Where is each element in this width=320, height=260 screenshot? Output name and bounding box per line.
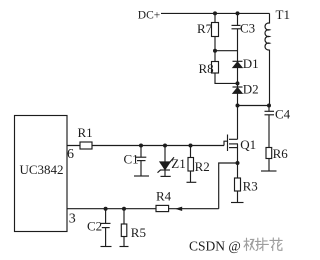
wire R8 bottom L <box>215 73 238 83</box>
wire R7-R8 node horizontal <box>215 50 238 52</box>
resistor R6 <box>266 148 272 159</box>
svg-text:D2: D2 <box>243 81 259 96</box>
node R7-R8 <box>213 49 217 53</box>
wire R7 top lead <box>214 13 216 22</box>
node D2-clamp <box>236 104 240 108</box>
terminal bar Z1 <box>161 175 171 177</box>
watermark glyph ka <box>258 238 269 251</box>
node R5 <box>122 207 126 211</box>
terminal bar R5 <box>120 246 129 248</box>
node C1 <box>139 144 143 148</box>
wire C3 bottom to D1 <box>237 29 239 62</box>
MOSFET Q1 drain bar <box>229 138 238 140</box>
svg-text:3: 3 <box>69 212 76 227</box>
capacitor C3 plates <box>232 24 241 26</box>
wire vertical riser to Q1 source node <box>219 163 238 209</box>
svg-text:C4: C4 <box>275 107 291 122</box>
svg-text:R7: R7 <box>197 21 213 36</box>
MOSFET Q1 body bar <box>229 143 238 145</box>
svg-text:R5: R5 <box>131 225 146 240</box>
svg-text:DC+: DC+ <box>138 9 160 21</box>
svg-text:R3: R3 <box>243 179 258 194</box>
transformer T1 winding <box>265 23 270 50</box>
svg-text:D1: D1 <box>243 56 259 71</box>
wire D1 to node <box>237 68 239 88</box>
IC U1 UC3842 box <box>15 116 68 232</box>
wire R7 bottom to R8 top <box>214 37 216 62</box>
svg-text:R8: R8 <box>199 61 214 76</box>
diode D2 <box>233 86 243 88</box>
capacitor C2 <box>105 209 107 224</box>
zener Z1 <box>164 146 166 163</box>
terminal bar C1 <box>134 175 149 177</box>
resistor R8 <box>212 62 219 74</box>
svg-text:Z1: Z1 <box>171 156 185 171</box>
terminal bar R2 <box>187 181 197 183</box>
resistor R1 <box>80 142 92 149</box>
terminal bar R6 <box>261 170 277 172</box>
watermark glyph shu <box>244 238 249 250</box>
svg-text:C1: C1 <box>124 152 139 167</box>
resistor R7 <box>212 23 219 37</box>
MOSFET Q1 source bar <box>229 147 238 149</box>
wire Q1 drain vertical <box>237 106 239 140</box>
wire Q1 gate jog <box>224 141 228 145</box>
wire pin6 run <box>67 145 224 147</box>
transformer T1 bottom lead <box>269 50 271 106</box>
svg-text:Q1: Q1 <box>240 137 256 152</box>
terminal bar R3 <box>231 202 244 204</box>
wire C3 top lead <box>237 13 239 25</box>
transformer T1 primary lead down <box>269 13 271 23</box>
diode D1 <box>233 60 243 62</box>
watermark glyph hua <box>270 238 282 243</box>
node R8-D1-D2 <box>236 81 240 85</box>
node R2 <box>189 144 193 148</box>
MOSFET Q1 gate bar <box>227 135 229 152</box>
capacitor C1 <box>140 146 142 158</box>
node Z1 <box>163 144 167 148</box>
resistor R2 <box>190 146 192 158</box>
arrow on wire after R4 <box>177 207 182 210</box>
capacitor C4 leads <box>268 106 270 112</box>
capacitor C4 plates <box>265 110 275 112</box>
svg-text:R2: R2 <box>195 159 210 174</box>
wire DC+ rail <box>161 12 270 14</box>
resistor R5 <box>123 209 125 224</box>
terminal bar C2 <box>101 246 112 248</box>
node C2 <box>104 207 108 211</box>
svg-text:6: 6 <box>67 147 74 162</box>
svg-text:T1: T1 <box>276 7 290 22</box>
wire pin3 run <box>67 208 219 210</box>
MOSFET Q1 source vertical <box>237 144 239 163</box>
watermark CSDN <box>189 238 282 253</box>
svg-text:R1: R1 <box>78 125 93 140</box>
node rail-C3 <box>236 11 240 15</box>
svg-text:R4: R4 <box>156 188 172 203</box>
svg-text:R6: R6 <box>273 146 289 161</box>
wire D2 to node <box>237 93 239 105</box>
svg-text:UC3842: UC3842 <box>20 162 64 177</box>
node rail-R7 <box>213 11 217 15</box>
resistor R4 <box>156 205 169 211</box>
node T1-C4 <box>267 104 271 108</box>
svg-text:CSDN @: CSDN @ <box>189 238 241 253</box>
resistor R3 <box>237 163 239 178</box>
node Q1 source <box>236 161 240 165</box>
svg-text:C2: C2 <box>87 218 102 233</box>
svg-text:C3: C3 <box>240 21 255 36</box>
wire node to C4 branch <box>238 105 270 107</box>
